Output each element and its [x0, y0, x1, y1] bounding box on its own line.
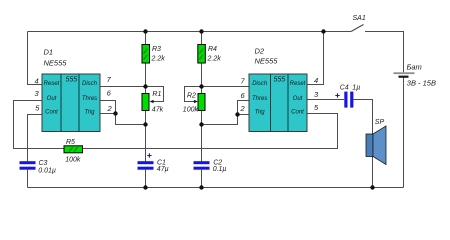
svg-text:555: 555 — [65, 77, 77, 84]
wire: switch to battery plus — [365, 32, 404, 73]
junction node: R2 bottom / C2 — [199, 122, 203, 126]
wire: C4 to speaker — [354, 100, 373, 188]
svg-text:SA1: SA1 — [353, 15, 366, 22]
svg-text:R1: R1 — [152, 91, 161, 98]
junction node: D2 pin7/R4/R2 — [199, 84, 203, 88]
junction node: R1 bottom / C1 — [143, 122, 147, 126]
wire: left drop to D1 pin 4 — [28, 32, 43, 85]
svg-text:Trig: Trig — [85, 110, 96, 116]
svg-text:R2: R2 — [187, 92, 196, 99]
junction node: top bus at R3 — [143, 29, 147, 33]
wire: D2 pin 6 to pin 2 link — [238, 101, 250, 115]
svg-text:Trig: Trig — [255, 110, 266, 116]
junction node: ground bus at speaker — [370, 185, 374, 189]
svg-text:2: 2 — [107, 104, 113, 113]
svg-text:SP: SP — [375, 119, 385, 126]
wire: D2 pin 2 — [202, 115, 250, 125]
svg-text:R4: R4 — [208, 46, 217, 53]
svg-text:C3: C3 — [39, 160, 48, 167]
wire: D1 pin 3 out to R5 — [14, 101, 65, 149]
junction node: top bus at D2 reset riser — [321, 29, 325, 33]
capacitor C2 — [194, 161, 210, 170]
svg-text:Reset: Reset — [44, 81, 60, 87]
svg-text:0.1µ: 0.1µ — [213, 166, 227, 173]
wire: D1 pin 7 to R3/R1 node — [100, 86, 146, 88]
battery B1 — [394, 72, 415, 77]
resistor R2 — [198, 94, 205, 111]
wire: D1 pin 2 — [100, 114, 146, 125]
svg-text:2.2k: 2.2k — [151, 55, 166, 62]
svg-text:555: 555 — [273, 77, 285, 84]
resistor R4 — [198, 45, 206, 64]
wire: R4 branch vertical — [201, 32, 203, 94]
junction node: D1 pin7/R3/R1 — [143, 84, 147, 88]
svg-text:R3: R3 — [152, 46, 161, 53]
svg-text:100k: 100k — [65, 156, 81, 163]
wire: R5 output long run to D2 pin 5 — [83, 114, 338, 149]
svg-text:3: 3 — [35, 89, 40, 98]
svg-text:Бат: Бат — [407, 63, 422, 72]
svg-text:D2: D2 — [255, 46, 265, 55]
junction node: ground bus at C2 — [199, 185, 203, 189]
svg-text:7: 7 — [107, 75, 112, 84]
wire: C1 to ground bus — [145, 170, 147, 188]
svg-text:C4: C4 — [340, 84, 349, 91]
junction node: D1 pin2/pin6 — [113, 111, 117, 115]
svg-text:D1: D1 — [44, 48, 54, 57]
capacitor C3 — [20, 161, 36, 170]
resistor R1 — [142, 94, 149, 111]
svg-text:47k: 47k — [152, 107, 164, 114]
svg-text:1µ: 1µ — [352, 84, 360, 91]
svg-text:Out: Out — [293, 96, 303, 102]
svg-text:2: 2 — [240, 104, 246, 113]
svg-text:6: 6 — [107, 89, 112, 98]
svg-text:Cont: Cont — [45, 110, 58, 116]
R2 wiper leader arrow — [185, 87, 202, 104]
wire: D1 pin 6 to pin 2 link — [100, 101, 116, 114]
wire: C2 to ground bus — [201, 170, 203, 188]
svg-text:2.2k: 2.2k — [207, 55, 222, 62]
svg-text:NE555: NE555 — [44, 58, 68, 67]
timer D1 NE555 body — [42, 74, 100, 132]
speaker SP — [366, 126, 386, 165]
wire: R2 bottom to C2 — [201, 111, 203, 162]
svg-text:Out: Out — [47, 96, 57, 102]
svg-text:3В - 15В: 3В - 15В — [407, 78, 436, 87]
wire: bottom ground bus — [28, 187, 404, 189]
svg-text:Cont: Cont — [291, 110, 304, 116]
junction node: D2 pin2/pin6 — [235, 112, 239, 116]
svg-text:7: 7 — [241, 77, 246, 86]
timer D2 NE555 body — [249, 74, 307, 132]
wire: battery minus to ground bus — [403, 78, 405, 188]
svg-text:R5: R5 — [66, 139, 75, 146]
wire: R3 branch vertical — [145, 32, 147, 94]
resistor R3 — [142, 45, 150, 64]
svg-text:5: 5 — [314, 103, 319, 112]
wire: D2 pin 7 to R4/R2 node — [202, 86, 250, 88]
wire: top supply bus — [28, 31, 352, 33]
svg-text:4: 4 — [314, 76, 318, 85]
svg-text:47µ: 47µ — [157, 166, 169, 173]
svg-text:Reset: Reset — [290, 81, 306, 87]
capacitor C1 (polarized) — [138, 153, 154, 169]
svg-text:4: 4 — [35, 77, 39, 86]
R1 wiper leader arrow — [146, 87, 164, 104]
svg-text:6: 6 — [241, 91, 246, 100]
svg-text:Disch: Disch — [252, 81, 268, 87]
svg-text:5: 5 — [35, 104, 40, 113]
wire: D2 pin 3 to C4 — [307, 99, 344, 101]
svg-text:100k: 100k — [183, 106, 199, 113]
svg-text:3: 3 — [314, 90, 319, 99]
junction node: ground bus at C1 — [143, 185, 147, 189]
svg-text:NE555: NE555 — [255, 57, 279, 66]
switch SA1 lever — [351, 25, 364, 32]
wire: D1 pin 5 to C3 — [28, 115, 43, 162]
svg-text:Thres: Thres — [252, 96, 267, 102]
junction node: top bus at R4 — [199, 29, 203, 33]
wire: C3 to ground bus — [27, 170, 29, 188]
svg-text:0.01µ: 0.01µ — [38, 167, 56, 174]
wire: D2 pin 4 riser to bus — [307, 32, 324, 85]
resistor R5 — [64, 146, 83, 153]
capacitor C4 (polarized coupling) — [335, 92, 353, 108]
svg-text:Thres: Thres — [82, 96, 97, 102]
wire: R1 bottom to C1 — [145, 111, 147, 162]
svg-text:Disch: Disch — [82, 81, 98, 87]
